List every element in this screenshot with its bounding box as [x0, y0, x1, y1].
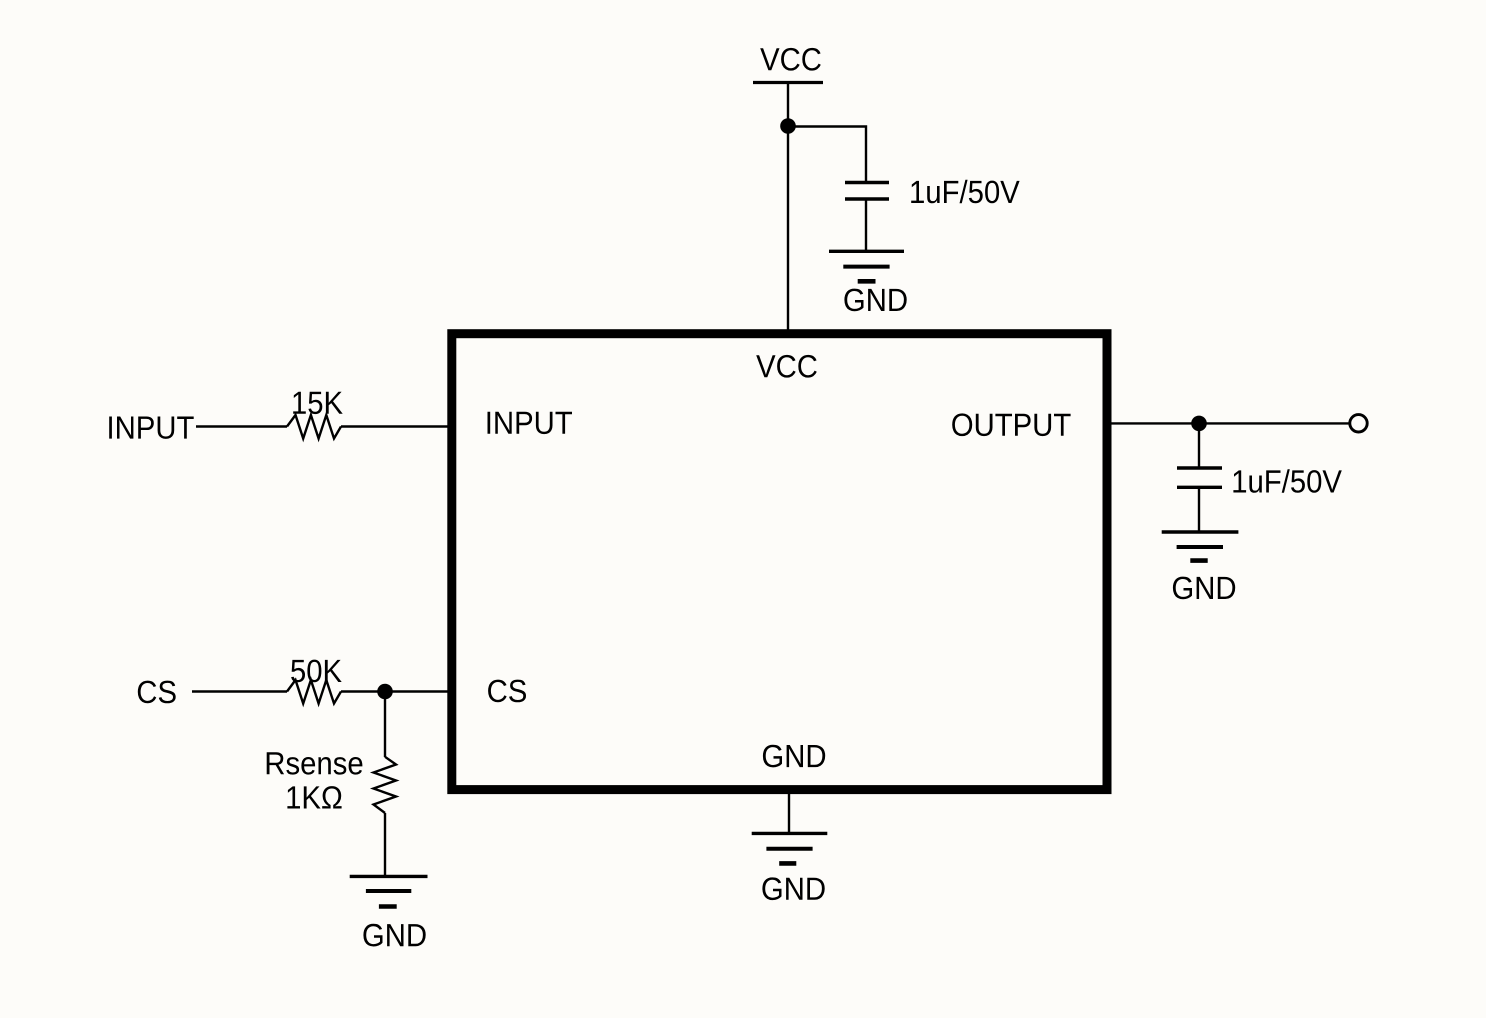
wire Rsense to ground G2 [384, 813, 386, 876]
IC pin label CS [488, 680, 526, 703]
ground G2 [350, 876, 428, 906]
ground G4 [752, 833, 828, 863]
resistor R2 50K [287, 680, 341, 704]
ground G1 [829, 251, 904, 281]
net label INPUT [109, 417, 194, 439]
VCC power rail bar [753, 81, 823, 84]
net label VCC (top supply) [760, 48, 821, 71]
IC U1 body [452, 334, 1107, 790]
wire CS to resistor R2 [192, 690, 287, 692]
GND label for G3 [1173, 577, 1235, 600]
IC pin label OUTPUT [952, 413, 1070, 436]
wire C1 to ground G1 [865, 200, 867, 251]
resistor Rsense [374, 757, 397, 813]
R2 value label 50K [291, 660, 342, 683]
IC pin label GND [763, 745, 825, 768]
wire VCC rail down to IC VCC pin [787, 84, 789, 330]
Rsense value label 1K ohm [287, 786, 341, 808]
capacitor C2 top plate [1177, 466, 1222, 469]
Rsense name label [267, 752, 363, 774]
wire C2 to ground G3 [1198, 488, 1200, 532]
GND label for G2 [363, 924, 425, 947]
IC pin label VCC [756, 355, 817, 378]
wire VCC node to capacitor C1 [788, 127, 866, 183]
wire IC OUTPUT pin to output terminal [1111, 422, 1350, 424]
wire CS node down to resistor Rsense [384, 692, 386, 758]
R1 value label 15K [293, 392, 343, 414]
IC pin label INPUT [488, 412, 573, 434]
wire INPUT to resistor R1 [196, 425, 287, 427]
resistor R1 15K [287, 415, 341, 439]
ground G3 [1162, 532, 1239, 561]
GND label for G4 [762, 877, 824, 900]
C2 value label 1uF/50V [1233, 469, 1341, 493]
junction dot CS node [377, 684, 393, 700]
capacitor C1 top plate [845, 181, 889, 184]
junction dot OUTPUT node [1191, 416, 1207, 432]
wire IC GND pin to ground G4 [788, 794, 790, 833]
GND label for G1 [844, 289, 906, 312]
net label CS [138, 681, 176, 704]
capacitor C1 bottom plate [845, 197, 889, 200]
output terminal (open circle) [1350, 415, 1367, 432]
wire R2 to IC CS pin [341, 690, 448, 692]
junction dot VCC node [780, 118, 796, 134]
C1 value label 1uF/50V [911, 180, 1019, 204]
capacitor C2 bottom plate [1177, 486, 1222, 489]
wire OUTPUT node down to capacitor C2 [1198, 423, 1200, 468]
wire R1 to IC INPUT pin [341, 425, 448, 427]
